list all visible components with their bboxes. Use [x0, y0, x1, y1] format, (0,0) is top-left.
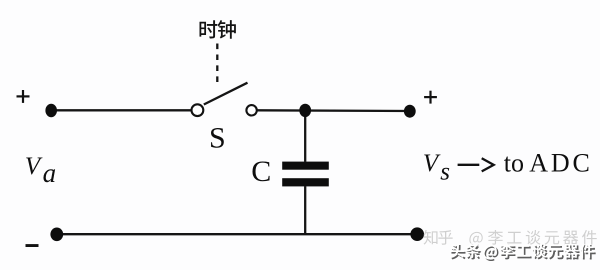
svg-text:s: s — [440, 159, 450, 186]
svg-text:V: V — [25, 153, 43, 180]
svg-text:ADC: ADC — [529, 149, 592, 178]
svg-text:C: C — [251, 155, 271, 188]
svg-text:S: S — [209, 121, 226, 154]
svg-text:V: V — [423, 150, 441, 177]
svg-text:a: a — [43, 158, 57, 188]
svg-text:to: to — [504, 149, 524, 178]
